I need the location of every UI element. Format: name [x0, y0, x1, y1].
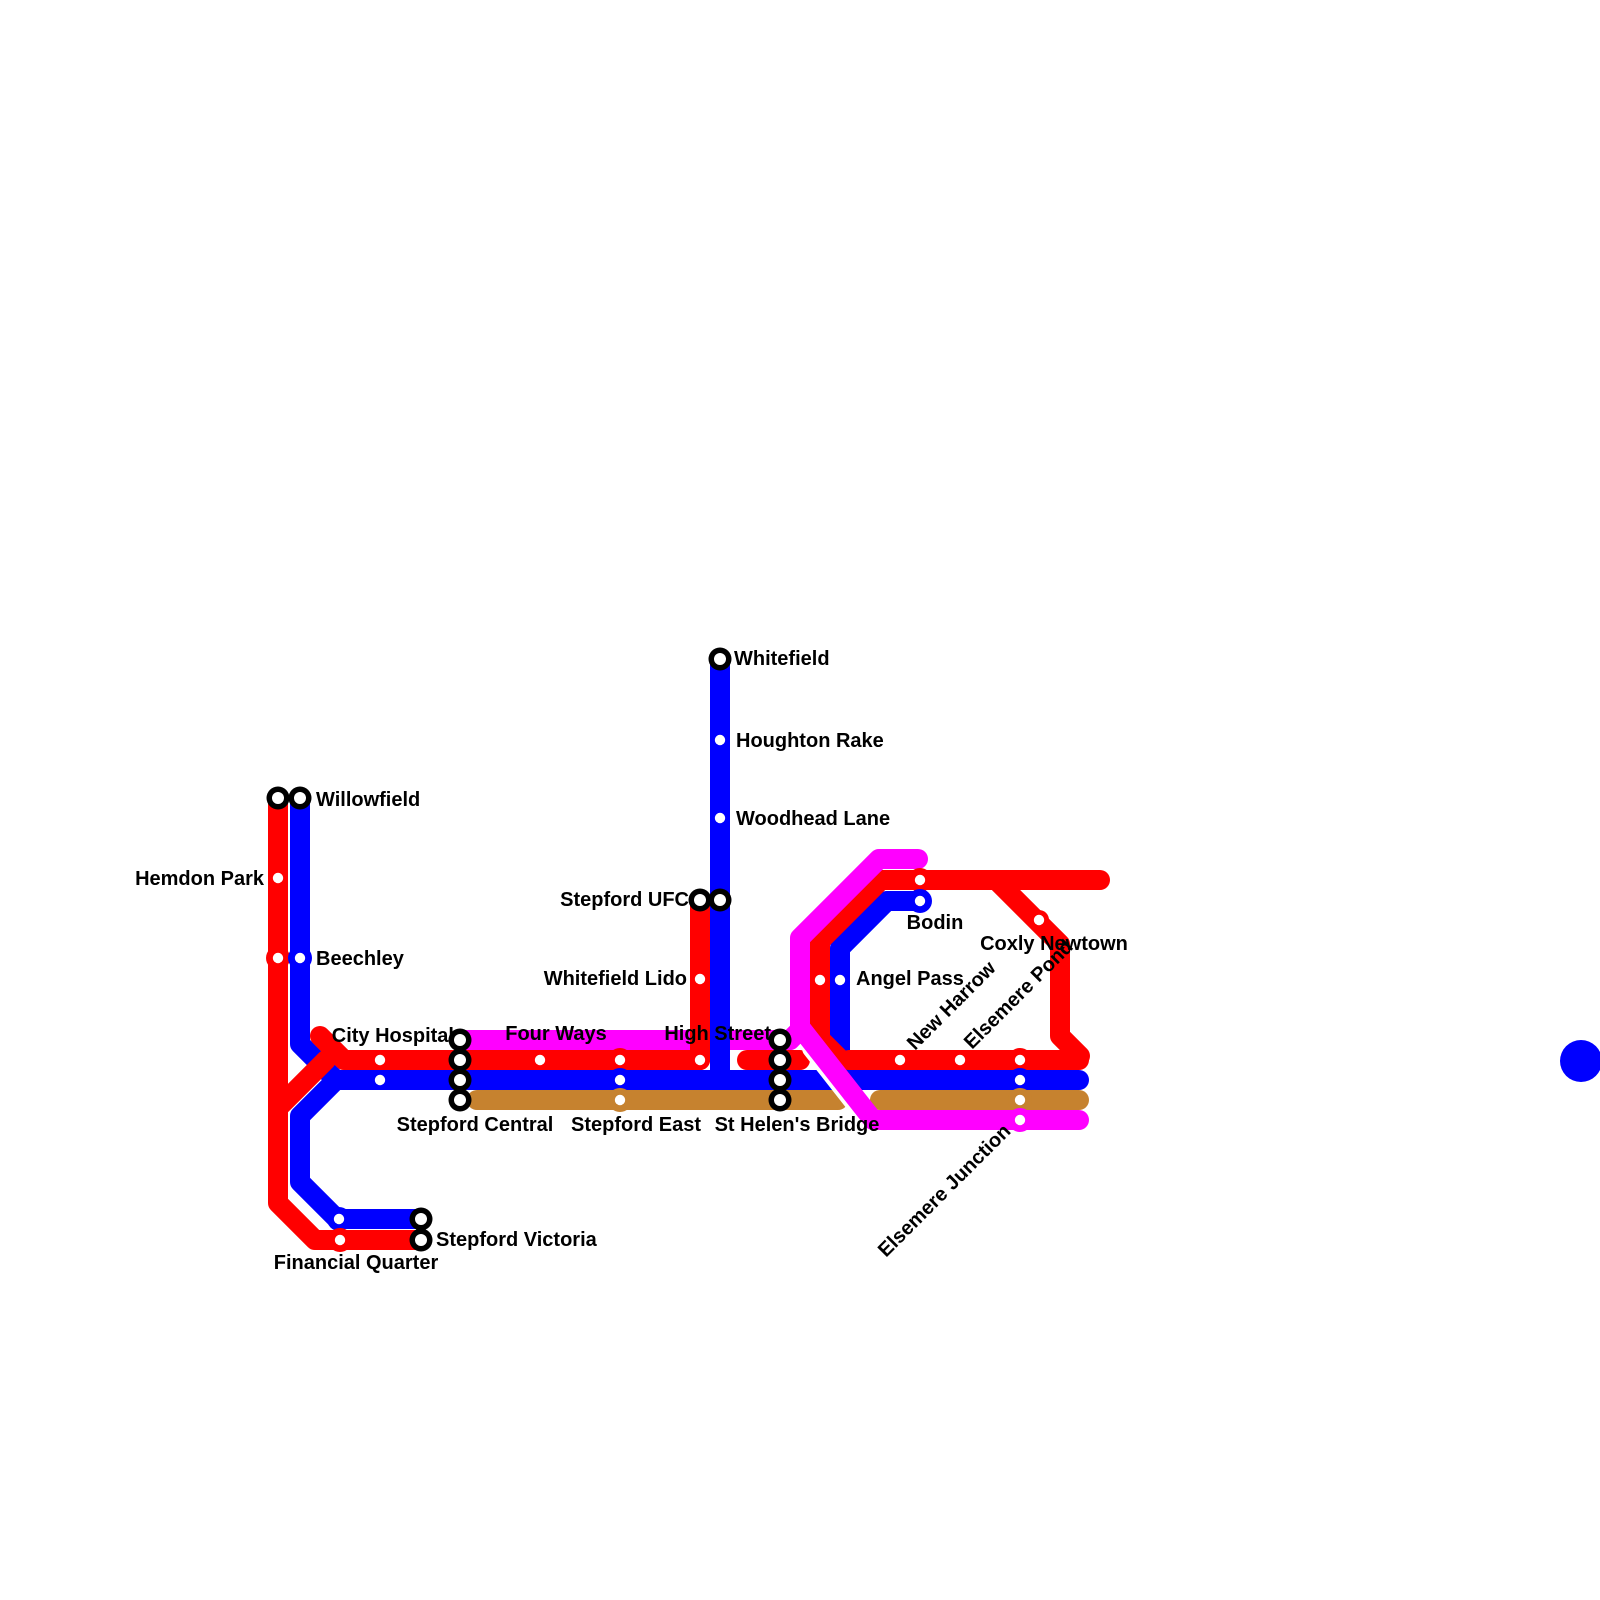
svg-text:Angel Pass: Angel Pass	[856, 968, 964, 990]
svg-text:Woodhead Lane: Woodhead Lane	[736, 808, 890, 830]
station dot: Bodin red	[908, 868, 932, 892]
svg-text:Beechley: Beechley	[316, 948, 405, 970]
wire: blue Elsemere loop (Bodin branch)	[840, 901, 920, 1080]
wire: blue Whitefield vertical	[710, 659, 730, 1080]
station dot: Stepford East red	[608, 1048, 632, 1072]
station dot: Financial Quarter red	[328, 1228, 352, 1252]
svg-text:Stepford UFC: Stepford UFC	[560, 889, 689, 911]
station dot: Beechley red	[266, 946, 290, 970]
svg-text:Bodin: Bodin	[907, 912, 964, 934]
svg-text:Financial Quarter: Financial Quarter	[274, 1252, 439, 1274]
station dot: City Hospital red	[370, 1050, 390, 1070]
svg-text:Stepford Victoria: Stepford Victoria	[436, 1229, 598, 1251]
wire: red Stepford UFC vertical	[690, 900, 710, 1060]
station dot: Houghton Rake	[710, 730, 730, 750]
svg-text:Four Ways: Four Ways	[505, 1023, 607, 1045]
svg-text:Houghton Rake: Houghton Rake	[736, 730, 884, 752]
svg-text:Willowfield: Willowfield	[316, 789, 420, 811]
station dot: Whitefield Lido	[690, 969, 710, 989]
interchange: Whitefield	[709, 648, 732, 671]
svg-text:Hemdon Park: Hemdon Park	[135, 868, 265, 890]
wire: magenta Elsemere Junction diagonal and bottom horizontal	[800, 1027, 1079, 1120]
wire: magenta trunk Four Ways horizontal	[459, 1030, 790, 1050]
station dot: High Street red	[690, 1050, 710, 1070]
wire: red Willowfield vertical to Stepford Victoria	[278, 798, 421, 1240]
wire: red Elsemere loop upper	[820, 880, 1100, 1060]
wire: tan trunk left segment	[477, 1090, 838, 1110]
station dot: Elsemere Junction magenta	[1008, 1108, 1032, 1132]
interchange: Stepford Central	[449, 1029, 472, 1112]
station dot: Elsemere Pond	[950, 1050, 970, 1070]
station dot: Angel Pass blue	[830, 970, 850, 990]
station dot: Stepford East blue	[608, 1068, 632, 1092]
station dot: Beechley blue	[288, 946, 312, 970]
station dot: Angel Pass red	[810, 970, 830, 990]
interchange: Stepford UFC	[689, 889, 732, 912]
wire: red connector diagonal at City Hospital	[278, 1060, 326, 1108]
wire: blue Willowfield vertical and trunk	[300, 798, 1079, 1080]
svg-text:St Helen's Bridge: St Helen's Bridge	[715, 1114, 880, 1136]
svg-text:Whitefield: Whitefield	[734, 648, 830, 670]
station dot: New Harrow	[890, 1050, 910, 1070]
svg-text:Stepford Central: Stepford Central	[397, 1114, 554, 1136]
interchange: Willowfield	[267, 787, 312, 810]
svg-text:City Hospital: City Hospital	[332, 1025, 454, 1047]
svg-text:High Street: High Street	[664, 1023, 771, 1045]
interchange: High Street / St Helen's Bridge	[769, 1029, 792, 1112]
station dot: Stepford East tan	[608, 1088, 632, 1112]
station dot: Elsemere Junction red	[1008, 1048, 1032, 1072]
station dot: Woodhead Lane	[710, 808, 730, 828]
station dot: Financial Quarter blue	[327, 1207, 351, 1231]
wire: tan trunk right segment	[880, 1090, 1079, 1110]
wire: red Coxly Newtown branch	[996, 880, 1080, 1056]
wire: magenta High Street to Bodin branch	[790, 859, 918, 1040]
wire: blue Stepford Victoria branch	[300, 1080, 421, 1219]
svg-text:Stepford East: Stepford East	[571, 1114, 701, 1136]
station dot: Bodin blue	[908, 889, 932, 913]
station dot: Four Ways	[530, 1050, 550, 1070]
wire: red trunk from City Hospital stub to Stepford UFC junction	[320, 1036, 700, 1060]
interchange: Stepford Victoria	[410, 1208, 433, 1252]
station dot: Elsemere Junction tan	[1008, 1088, 1032, 1112]
station dot: Coxly Newtown	[1029, 910, 1049, 930]
wire: red trunk middle segment	[747, 1050, 800, 1070]
wire: red trunk right segment	[849, 1050, 1079, 1070]
station dot: Hemdon Park	[268, 868, 288, 888]
svg-text:Whitefield Lido: Whitefield Lido	[544, 968, 687, 990]
wire: white casing of magenta Elsemere Junction diagonal	[813, 1048, 870, 1120]
node: blue legend dot right edge	[1560, 1040, 1600, 1082]
station dot: Elsemere Junction blue	[1008, 1068, 1032, 1092]
station dot: City Hospital blue	[370, 1070, 390, 1090]
